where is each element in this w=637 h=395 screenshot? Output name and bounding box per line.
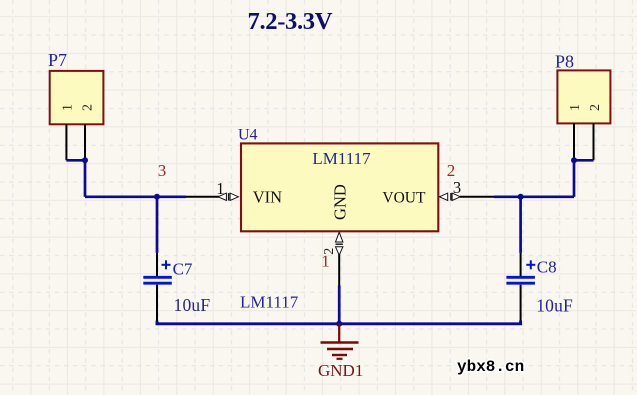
connector P8 pin 1	[573, 123, 575, 160]
ground symbol GND1 stem	[338, 323, 340, 341]
svg-text:1: 1	[61, 104, 76, 111]
connector P7 pin 1	[65, 124, 67, 160]
svg-text:3: 3	[158, 161, 167, 180]
svg-text:7.2-3.3V: 7.2-3.3V	[248, 8, 333, 35]
wire P7 to VIN	[85, 195, 186, 198]
svg-text:C7: C7	[173, 260, 193, 279]
junction at C8 top	[518, 194, 524, 200]
svg-text:2: 2	[588, 104, 603, 111]
svg-text:GND1: GND1	[318, 361, 363, 380]
connector P8 body	[557, 70, 610, 123]
svg-text:1: 1	[321, 252, 330, 271]
regulator U4 body	[241, 143, 438, 231]
svg-text:10uF: 10uF	[536, 296, 573, 316]
svg-text:GND: GND	[331, 184, 350, 220]
connector P8 pin 2	[593, 123, 595, 160]
U4 VIN pin wire stub	[186, 196, 219, 198]
svg-text:VIN: VIN	[253, 188, 282, 207]
capacitor C7 top pin	[156, 253, 158, 276]
junction at P8 pin 1	[571, 157, 577, 163]
wire P7 down	[84, 160, 87, 197]
wire VOUT to P8	[494, 195, 574, 198]
svg-text:VOUT: VOUT	[382, 190, 426, 207]
svg-text:LM1117: LM1117	[240, 293, 299, 312]
svg-text:1: 1	[216, 179, 224, 198]
capacitor C8 plus sign	[526, 260, 535, 269]
U4 GND pin wire stub	[338, 253, 340, 286]
wire junction to C8	[519, 197, 522, 253]
capacitor C8 bottom plate	[506, 282, 535, 285]
svg-text:LM1117: LM1117	[312, 149, 371, 168]
watermark ybx8.cn	[457, 358, 524, 376]
U4 GND pin IO arrows	[336, 232, 343, 255]
U4 VOUT pin wire stub	[460, 196, 494, 198]
bottom ground wire	[157, 321, 521, 324]
ground symbol GND1 bar 2	[327, 348, 353, 350]
junction at ground	[336, 321, 342, 327]
ground symbol GND1 bar 3	[332, 354, 347, 356]
svg-text:P7: P7	[48, 50, 67, 70]
wire P8 down	[573, 160, 576, 197]
capacitor C8 top pin	[520, 253, 522, 276]
svg-text:U4: U4	[238, 127, 258, 144]
ground symbol GND1 bar 4	[337, 358, 343, 360]
svg-text:C8: C8	[537, 258, 557, 277]
ground symbol GND1 bar 1	[321, 341, 359, 343]
junction at P7 pin 2	[82, 157, 88, 163]
svg-text:2: 2	[447, 161, 456, 180]
svg-text:10uF: 10uF	[174, 295, 211, 315]
wire P7 pins join	[66, 159, 85, 162]
junction at C7 top	[154, 194, 160, 200]
wire P8 pins join	[574, 159, 594, 162]
wire junction to C7	[156, 197, 159, 253]
connector P7 body	[50, 71, 104, 124]
U4 VIN pin IO arrows	[218, 193, 238, 200]
wire U4 GND to bottom wire	[338, 286, 341, 324]
capacitor C7 plus sign	[162, 260, 171, 269]
svg-text:3: 3	[453, 178, 461, 197]
capacitor C7 top plate	[143, 276, 172, 279]
capacitor C8 bottom pin	[520, 285, 522, 321]
svg-text:1: 1	[568, 104, 583, 111]
svg-text:2: 2	[81, 104, 96, 111]
svg-text:ybx8.cn: ybx8.cn	[457, 358, 524, 376]
capacitor C8 top plate	[506, 276, 535, 279]
svg-text:P8: P8	[555, 52, 574, 72]
U4 VOUT pin IO arrows	[439, 193, 460, 200]
capacitor C7 bottom pin	[156, 285, 158, 321]
connector P7 pin 2	[84, 124, 86, 160]
capacitor C7 bottom plate	[143, 282, 172, 285]
